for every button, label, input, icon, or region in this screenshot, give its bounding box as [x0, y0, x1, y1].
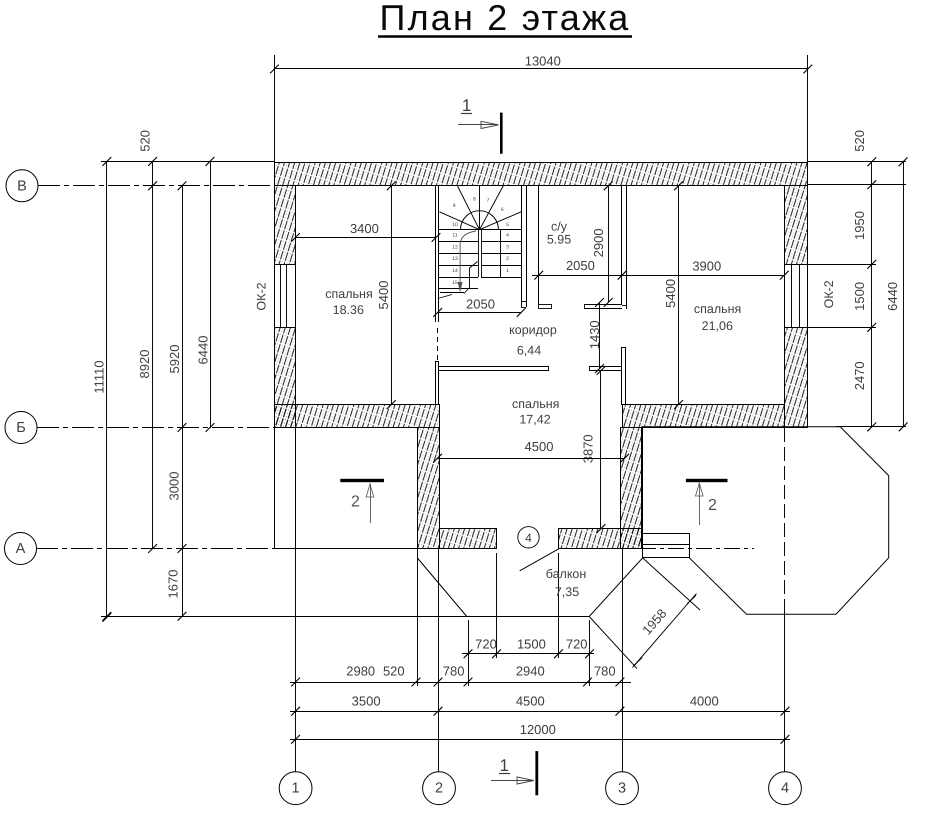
stairs break line — [438, 262, 478, 299]
svg-text:1: 1 — [506, 268, 509, 274]
left dimension chain lines — [101, 157, 589, 622]
svg-text:2980: 2980 — [346, 664, 375, 679]
svg-text:9: 9 — [453, 203, 456, 209]
dim text 6440 right — [885, 282, 900, 311]
svg-text:балкон: балкон — [546, 567, 587, 581]
partition stairwell west — [436, 186, 439, 362]
dimension row 720-1500-720 — [462, 553, 594, 686]
axis 2 extension line — [438, 548, 440, 772]
window OK-2 left — [275, 264, 296, 328]
wall balcony north right segment (hatched) — [559, 529, 642, 549]
section mark 1 top — [458, 96, 503, 154]
window OK-2 right — [785, 264, 808, 328]
dimension 1430 — [587, 298, 604, 373]
dimension 2050-3900 chain — [532, 258, 789, 280]
svg-text:4: 4 — [506, 233, 509, 239]
dim text 1500 — [852, 282, 867, 311]
section mark 1 bottom — [491, 751, 538, 795]
svg-text:3900: 3900 — [692, 258, 721, 273]
dim text 6440 left — [196, 336, 211, 365]
svg-text:2940: 2940 — [516, 664, 545, 679]
axis 3 extension line — [622, 548, 624, 772]
label OK-2 left — [255, 282, 269, 310]
svg-text:Б: Б — [16, 420, 26, 436]
bay outline right — [641, 427, 888, 614]
stairs step numbers — [452, 196, 509, 285]
partition corridor south — [436, 367, 621, 371]
stairs walk-line arrow — [458, 231, 476, 293]
svg-text:ОК-2: ОК-2 — [255, 282, 269, 310]
axis circle 4 — [769, 772, 802, 805]
dimension 1958 diagonal — [589, 558, 700, 669]
svg-text:5.95: 5.95 — [547, 233, 571, 247]
svg-text:13040: 13040 — [525, 54, 561, 69]
axis circle А — [5, 533, 275, 565]
wall left upper (hatched) — [275, 186, 296, 265]
dim text 1670 — [166, 570, 181, 599]
svg-text:14: 14 — [452, 268, 458, 274]
svg-text:4500: 4500 — [516, 694, 545, 709]
dim text 520 left — [138, 130, 153, 152]
partition bathroom south — [584, 304, 622, 309]
svg-text:720: 720 — [566, 637, 588, 652]
axis circle 2 — [423, 772, 456, 805]
svg-text:21,06: 21,06 — [702, 319, 733, 333]
label OK-2 right — [822, 280, 836, 308]
svg-text:3: 3 — [618, 781, 626, 797]
svg-text:12000: 12000 — [520, 722, 556, 737]
svg-text:6,44: 6,44 — [517, 344, 541, 358]
svg-text:3500: 3500 — [352, 694, 381, 709]
wall right upper (hatched) — [785, 186, 808, 265]
svg-text:520: 520 — [383, 664, 405, 679]
svg-text:3: 3 — [506, 244, 509, 250]
dim text 8920 — [137, 350, 152, 379]
dim text 1950 — [852, 211, 867, 240]
svg-text:спальня: спальня — [325, 287, 372, 301]
svg-text:4000: 4000 — [690, 694, 719, 709]
svg-text:спальня: спальня — [512, 397, 559, 411]
svg-text:1500: 1500 — [852, 282, 867, 311]
svg-text:720: 720 — [475, 637, 497, 652]
svg-text:5: 5 — [506, 222, 509, 228]
svg-text:2: 2 — [351, 494, 360, 511]
svg-text:5400: 5400 — [663, 279, 678, 308]
svg-text:11: 11 — [452, 233, 457, 239]
dimension row 3500-4500-4000 — [290, 694, 790, 716]
svg-text:10: 10 — [452, 222, 458, 228]
wall left lower (hatched) — [275, 328, 296, 428]
svg-text:2: 2 — [708, 497, 717, 514]
label bathroom — [547, 220, 571, 247]
stairs winder fan — [439, 186, 521, 230]
dimension 13040 top — [270, 54, 812, 164]
axis 4 extension line — [784, 428, 786, 772]
svg-text:В: В — [17, 178, 27, 194]
axis A dash through bay — [640, 548, 754, 550]
dimension 12000 — [290, 722, 790, 744]
svg-text:520: 520 — [138, 130, 153, 152]
wall right lower (hatched) — [785, 328, 808, 428]
svg-text:5920: 5920 — [167, 345, 182, 374]
wall balcony north left segment (hatched) — [440, 529, 497, 549]
svg-text:8: 8 — [473, 196, 476, 202]
dim text 11110 — [92, 360, 107, 393]
svg-text:2: 2 — [435, 781, 443, 797]
svg-text:коридор: коридор — [509, 323, 557, 337]
svg-text:2470: 2470 — [852, 361, 867, 390]
svg-text:7: 7 — [487, 198, 490, 204]
dimension 5400 right room — [663, 181, 683, 409]
svg-text:11110: 11110 — [92, 360, 107, 393]
svg-text:спальня: спальня — [694, 302, 741, 316]
right dimension chain lines — [808, 157, 908, 431]
terrace south line on axis A — [274, 548, 437, 550]
dimension 2900 — [591, 181, 613, 307]
svg-text:1500: 1500 — [517, 637, 546, 652]
stairs treads — [439, 230, 521, 289]
title Plan 2 etazha — [378, 0, 632, 38]
svg-text:17,42: 17,42 — [519, 413, 550, 427]
svg-text:2050: 2050 — [466, 296, 495, 311]
svg-text:1430: 1430 — [587, 320, 602, 349]
partition stairwell east — [521, 186, 527, 308]
wall band left of bedroom 18.36 (hatched) — [275, 405, 440, 428]
dim text 5920 — [167, 345, 182, 374]
opening mark circle 4 — [518, 527, 539, 548]
balcony outline — [417, 558, 642, 617]
svg-text:15: 15 — [452, 280, 458, 286]
svg-text:ОК-2: ОК-2 — [822, 280, 836, 308]
wall terrace east vertical (hatched) — [418, 428, 440, 549]
svg-text:1: 1 — [499, 756, 508, 775]
svg-text:2: 2 — [506, 256, 509, 262]
svg-text:2050: 2050 — [566, 258, 595, 273]
svg-text:4500: 4500 — [525, 439, 554, 454]
dimension 3870 — [581, 366, 606, 533]
axis circle 3 — [606, 772, 639, 805]
svg-text:780: 780 — [443, 664, 465, 679]
dimension 3400 — [291, 221, 440, 242]
svg-text:780: 780 — [594, 664, 616, 679]
dimension 5400 left room — [376, 181, 396, 409]
pilaster corridor west — [436, 362, 439, 405]
svg-text:520: 520 — [852, 130, 867, 152]
svg-text:1950: 1950 — [852, 211, 867, 240]
axis 1 extension line — [295, 548, 297, 772]
label corridor — [509, 323, 557, 358]
label bedroom 21.06 — [694, 302, 741, 333]
window box bay room south — [642, 534, 690, 558]
axis circle В — [6, 170, 274, 202]
svg-text:4: 4 — [525, 531, 532, 545]
partition bathroom west with foot — [539, 186, 552, 309]
svg-text:1: 1 — [462, 96, 471, 115]
wall grid-3 vertical (hatched) — [621, 428, 642, 549]
section mark 2 right — [686, 479, 728, 525]
dimension row 2980-520-780-2940-780 — [290, 548, 631, 686]
leader line balcony — [520, 549, 559, 571]
terrace west boundary lines — [275, 428, 296, 548]
axis circle 1 — [279, 772, 312, 805]
dim text 520 right — [852, 130, 867, 152]
svg-text:12: 12 — [452, 244, 458, 250]
svg-text:6440: 6440 — [196, 336, 211, 365]
svg-text:2900: 2900 — [591, 228, 606, 257]
partition grid-3 door jamb lower — [622, 348, 626, 405]
dim text 2470 — [852, 361, 867, 390]
label balcony — [546, 567, 587, 599]
dimension 4500 — [433, 439, 629, 463]
svg-text:7,35: 7,35 — [555, 585, 579, 599]
svg-text:5400: 5400 — [376, 281, 391, 310]
svg-text:с/у: с/у — [551, 220, 568, 234]
svg-text:1: 1 — [292, 781, 300, 797]
dimension 2050 stairs — [433, 296, 525, 317]
wall top (hatched) — [275, 163, 808, 186]
svg-text:18.36: 18.36 — [333, 303, 364, 317]
svg-text:План 2 этажа: План 2 этажа — [380, 0, 631, 38]
svg-text:3000: 3000 — [167, 472, 182, 501]
svg-text:1670: 1670 — [166, 570, 181, 599]
section mark 2 left — [340, 479, 384, 523]
dim text 3000 — [167, 472, 182, 501]
axis circle Б — [5, 412, 274, 444]
svg-text:А: А — [16, 541, 26, 557]
svg-text:3400: 3400 — [350, 221, 379, 236]
partition grid-3 upper — [622, 186, 627, 309]
label bedroom 18.36 — [325, 287, 372, 317]
svg-text:8920: 8920 — [137, 350, 152, 379]
svg-text:6440: 6440 — [885, 282, 900, 311]
wall band below bedroom 21.06 (hatched) — [623, 405, 785, 428]
svg-text:6: 6 — [501, 207, 504, 213]
svg-text:13: 13 — [452, 256, 458, 262]
svg-text:4: 4 — [781, 781, 789, 797]
label bedroom 17.42 — [512, 397, 559, 427]
bay west wall line — [642, 427, 644, 534]
